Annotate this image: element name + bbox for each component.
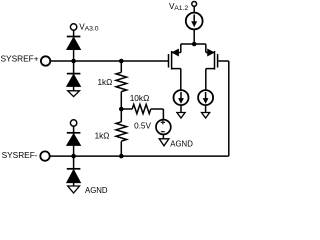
svg-text:A3.0: A3.0 [85,25,99,32]
svg-text:SYSREF-: SYSREF- [2,150,38,160]
svg-text:10kΩ: 10kΩ [130,93,150,103]
svg-text:1kΩ: 1kΩ [95,132,110,141]
svg-text:SYSREF+: SYSREF+ [1,54,39,64]
svg-text:1kΩ: 1kΩ [98,78,113,87]
svg-text:A1.2: A1.2 [174,5,188,12]
svg-text:0.5V: 0.5V [134,122,151,131]
svg-text:AGND: AGND [85,186,108,195]
svg-text:AGND: AGND [170,140,193,149]
